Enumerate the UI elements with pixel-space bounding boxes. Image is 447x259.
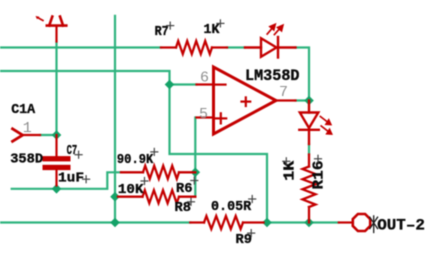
wire feedback run y=188.8 with step up to R6: [12, 172, 121, 189]
svg-text:C7: C7: [67, 143, 78, 159]
LED D2 arrows: [320, 117, 331, 135]
LED D1 arrows: [267, 24, 283, 34]
resistor R9 0.05R: [190, 216, 263, 229]
svg-text:6: 6: [200, 69, 209, 86]
IC1A output lead: [23, 134, 40, 136]
svg-text:R7: R7: [155, 24, 169, 40]
wire C7 bottom stub: [55, 185, 57, 189]
origin cross R7: [167, 22, 174, 29]
origin cross 90.9K: [151, 148, 158, 155]
svg-text:R9: R9: [236, 232, 253, 248]
power label arrow tick: [38, 18, 44, 21]
OUT-2 pad octagon: [353, 214, 370, 231]
wire pin6 node to op-amp lead: [170, 83, 197, 85]
svg-text:1K: 1K: [282, 161, 299, 181]
svg-text:R16: R16: [311, 161, 328, 190]
origin cross R8: [188, 198, 195, 205]
wire LED1 cathode to corner down to opamp-out node: [296, 48, 310, 101]
wire opamp out to LED node: [296, 99, 310, 101]
svg-text:1K: 1K: [204, 22, 220, 38]
svg-text:7: 7: [279, 84, 288, 101]
LED D1: [245, 37, 296, 58]
op-amp pin5 lead: [197, 116, 213, 118]
capacitor C7: [43, 156, 71, 170]
svg-text:5: 5: [199, 106, 208, 123]
wire second rail y=71 turning down through pin6 node, down to y=154, right, down to R9 node: [0, 71, 267, 223]
C7 top lead: [55, 135, 57, 156]
junction opamp out node: [304, 96, 314, 106]
resistor R16 (vertical): [303, 155, 316, 223]
wire vertical x=56.5 power to C7 node: [55, 42, 57, 136]
origin cross R6: [191, 177, 198, 184]
svg-text:1uF: 1uF: [58, 171, 84, 187]
wire LED2 to R16 gap: [308, 144, 310, 155]
svg-text:358D: 358D: [10, 152, 43, 168]
svg-text:1: 1: [23, 120, 32, 137]
op-amp U1B LM358D: [214, 67, 277, 134]
origin cross 1uF: [83, 176, 90, 183]
origin cross R16: [315, 155, 322, 162]
svg-text:OUT–2: OUT–2: [377, 217, 425, 235]
origin cross 1K-R16: [283, 158, 290, 165]
wire pin5 vertical x=195.3: [194, 118, 196, 197]
wire vertical x=115: [114, 16, 116, 223]
wire between R7 and LED1: [227, 46, 245, 48]
wire IC1A output to node: [40, 134, 57, 136]
origin cross 0.05R: [249, 196, 256, 203]
junction bottom rail x=115: [110, 218, 120, 228]
origin cross 1K: [217, 20, 224, 27]
svg-text:R6: R6: [176, 181, 193, 197]
junction IC1A out / C7 top: [52, 130, 62, 140]
power symbol VCC: [47, 17, 67, 42]
op-amp output lead pin7: [276, 99, 296, 101]
op-amp IC1A tip: [13, 129, 23, 142]
wire top rail y=47.5 left: [0, 46, 161, 48]
svg-text:0.05R: 0.05R: [211, 199, 252, 215]
junction C7 bottom: [52, 184, 62, 194]
svg-text:LM358D: LM358D: [245, 67, 300, 85]
svg-text:90.9K: 90.9K: [117, 152, 154, 168]
op-amp plus sign (center): [242, 97, 251, 106]
svg-text:10K: 10K: [118, 182, 144, 198]
wire bottom rail left y=222.5: [0, 221, 190, 223]
OUT-2 pin cross: [370, 216, 378, 233]
origin cross R9: [248, 230, 255, 237]
op-amp minus sign: [216, 83, 226, 85]
origin cross C7: [75, 151, 82, 158]
junction 10K left node: [110, 192, 120, 202]
svg-text:C1A: C1A: [11, 102, 36, 118]
op-amp plus sign (pin5): [216, 113, 227, 123]
junction R6/R8 right node: [191, 168, 201, 178]
junction R16 bottom node: [304, 218, 314, 228]
LED D2: [299, 101, 319, 145]
resistor R7: [161, 41, 227, 54]
origin cross 10K: [141, 178, 148, 185]
op-amp pin6 lead: [197, 83, 213, 85]
resistor R6 90.9K: [121, 166, 195, 179]
OUT-2 pad lead: [339, 221, 353, 223]
C7 bottom lead: [55, 170, 57, 185]
resistor R8 10K: [118, 190, 195, 203]
junction R9 right node: [262, 218, 272, 228]
wire bottom rail right y=222.5: [264, 221, 339, 223]
junction pin6 node: [165, 80, 175, 90]
